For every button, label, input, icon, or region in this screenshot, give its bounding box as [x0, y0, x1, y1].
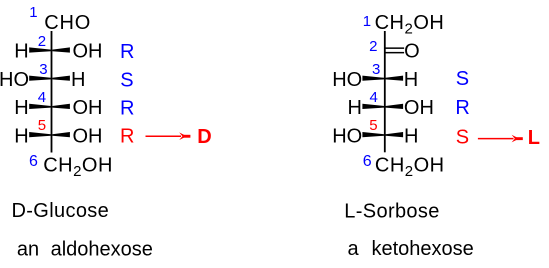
- svg-text:D: D: [197, 126, 211, 148]
- svg-text:S: S: [120, 69, 133, 91]
- svg-text:L-Sorbose: L-Sorbose: [344, 200, 439, 222]
- svg-text:OH: OH: [73, 41, 103, 63]
- svg-text:1: 1: [29, 4, 37, 21]
- svg-text:1: 1: [363, 13, 371, 30]
- svg-text:2: 2: [369, 38, 377, 55]
- svg-text:R: R: [120, 126, 134, 148]
- svg-text:H: H: [14, 125, 28, 147]
- svg-text:R: R: [120, 97, 134, 119]
- svg-text:H: H: [404, 125, 418, 147]
- svg-text:HO: HO: [332, 125, 362, 147]
- svg-text:R: R: [120, 41, 134, 63]
- svg-text:D-Glucose: D-Glucose: [12, 200, 110, 222]
- svg-text:L: L: [528, 127, 540, 149]
- svg-text:2: 2: [38, 33, 46, 50]
- svg-text:5: 5: [369, 117, 377, 134]
- svg-text:OH: OH: [404, 97, 434, 119]
- svg-text:HO: HO: [0, 69, 29, 91]
- svg-text:H: H: [14, 97, 28, 119]
- svg-text:R: R: [455, 97, 469, 119]
- svg-text:S: S: [456, 68, 469, 90]
- svg-text:6: 6: [29, 153, 38, 170]
- svg-text:4: 4: [38, 89, 46, 106]
- svg-text:H: H: [71, 69, 85, 91]
- svg-text:3: 3: [39, 61, 47, 78]
- svg-text:HO: HO: [332, 69, 362, 91]
- svg-text:3: 3: [372, 61, 380, 78]
- svg-text:H: H: [348, 97, 362, 119]
- svg-text:S: S: [456, 127, 469, 149]
- svg-text:a ketohexose: a ketohexose: [348, 238, 474, 260]
- svg-text:OH: OH: [73, 97, 103, 119]
- svg-text:4: 4: [370, 89, 378, 106]
- svg-text:H: H: [14, 41, 28, 63]
- svg-text:CHO: CHO: [44, 12, 91, 34]
- svg-text:OH: OH: [73, 125, 103, 147]
- svg-text:O: O: [404, 41, 420, 63]
- svg-text:5: 5: [38, 117, 46, 134]
- svg-text:an aldohexose: an aldohexose: [17, 238, 153, 260]
- svg-text:H: H: [404, 69, 418, 91]
- svg-text:6: 6: [363, 153, 372, 170]
